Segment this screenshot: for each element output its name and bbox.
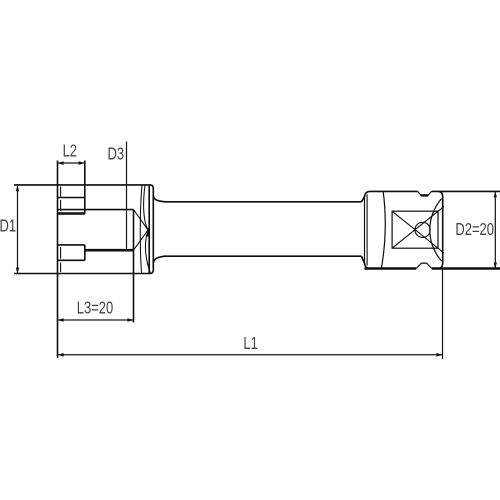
svg-text:L3=20: L3=20 <box>77 298 114 318</box>
svg-text:D1: D1 <box>0 217 16 237</box>
svg-text:D2=20: D2=20 <box>455 220 494 240</box>
svg-text:D3: D3 <box>108 145 125 165</box>
svg-text:L2: L2 <box>63 142 77 162</box>
svg-text:L1: L1 <box>243 334 257 354</box>
